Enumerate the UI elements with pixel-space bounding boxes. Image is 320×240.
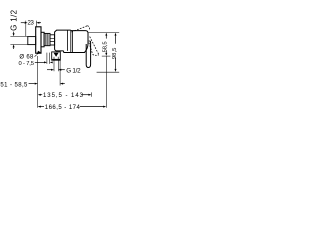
outer right dimension 98,5 — [115, 33, 117, 36]
dimension 166,5 - 174 — [38, 106, 41, 108]
body groove lines — [67, 30, 69, 51]
extension line y36.4 — [10, 35, 28, 37]
bottom ext line from wall plane — [37, 56, 39, 108]
outlet union below body — [52, 52, 61, 60]
svg-text:G 1/2: G 1/2 — [66, 68, 81, 75]
outlet bottom bar — [52, 59, 60, 61]
dimension 135,5 - 143 — [38, 94, 41, 96]
ext lines from nut — [46, 53, 48, 64]
svg-text:0 - 7,5: 0 - 7,5 — [19, 61, 35, 67]
union nut part 2 — [44, 33, 50, 45]
outlet ext lines down — [53, 60, 55, 71]
inner right dimension 58,5 — [105, 33, 107, 36]
bottom ext line far right — [105, 56, 107, 108]
svg-text:135,5 - 143: 135,5 - 143 — [43, 93, 84, 99]
lever raised position (dashed) — [72, 26, 88, 32]
0-7,5 dim right arrow — [50, 61, 53, 63]
dimension 23: right arrow+tail — [36, 22, 39, 24]
svg-text:58,5: 58,5 — [103, 41, 109, 52]
extension line y44.4 — [10, 43, 28, 45]
outlet inner lines — [54, 57, 58, 59]
lever swing arc (dashed diagonals) — [88, 40, 93, 54]
outlet nipple triangle — [54, 53, 59, 57]
mixer body left section — [55, 30, 71, 52]
union nut grooves — [46, 33, 48, 45]
svg-text:23: 23 — [28, 20, 35, 26]
right top extension line — [88, 32, 119, 34]
dimension 23: left line+arrow — [21, 22, 25, 24]
wall flange plate — [36, 27, 41, 53]
svg-text:G 1/2: G 1/2 — [9, 9, 18, 31]
right arrow+tail — [58, 69, 61, 71]
0-7,5 dim: left line+arrow — [35, 61, 44, 63]
mixer body right section — [64, 31, 88, 53]
svg-text:166,5 - 174: 166,5 - 174 — [45, 105, 81, 111]
dimension 23: extension line left — [25, 21, 27, 37]
dia 68 leader arrow — [35, 55, 37, 57]
union nut part 1 — [41, 32, 44, 47]
svg-text:98,5: 98,5 — [112, 48, 118, 60]
svg-text:51 - 58,5: 51 - 58,5 — [0, 83, 28, 89]
adapter ridges — [50, 38, 55, 41]
inner dim bottom ext line — [102, 55, 111, 57]
dimension G1/2 vertical: bottom arrow+shaft — [13, 44, 15, 47]
dimension G1/2 vertical: top shaft+arrow — [13, 32, 15, 34]
outer dim bottom ext line — [97, 71, 120, 73]
svg-text:Ø 68: Ø 68 — [19, 54, 34, 60]
G 1/2 outlet dim: left line+arrow — [47, 69, 51, 71]
lever handle (down, solid) — [86, 41, 90, 68]
bottom ext line lever tip — [91, 92, 93, 96]
S-union square — [28, 37, 36, 45]
adapter — [50, 35, 55, 45]
dimension 23: extension line right — [35, 21, 37, 27]
